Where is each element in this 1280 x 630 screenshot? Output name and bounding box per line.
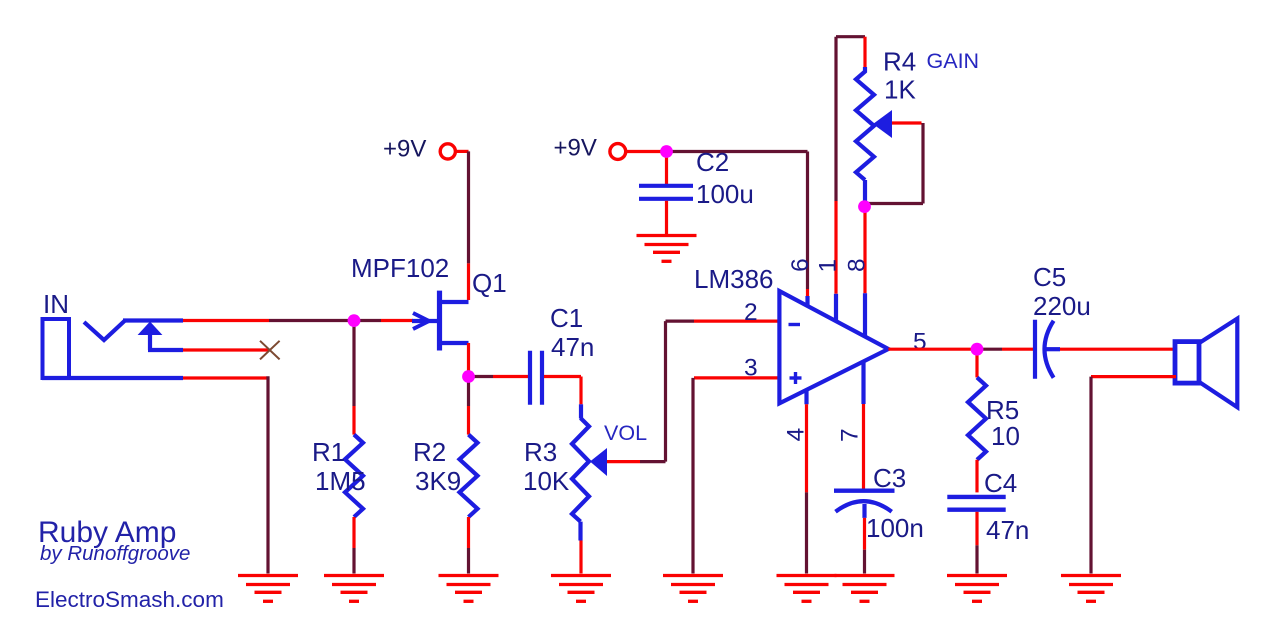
svg-text:10: 10 [991,421,1020,451]
op-amp inverting input mark [789,323,801,326]
svg-text:100n: 100n [866,513,924,543]
wire [381,319,413,322]
wire [578,522,582,541]
transistor Q1 drain lead [437,300,469,304]
wire [666,320,695,323]
ground [835,574,895,577]
wire [467,548,470,574]
svg-text:7: 7 [837,428,864,442]
wire [579,377,582,405]
wire [148,348,183,352]
potentiometer R4 [856,67,874,180]
wire [665,154,668,184]
svg-text:C4: C4 [984,468,1017,498]
node junction on V+ rail [660,145,673,158]
wire [456,150,469,153]
wire [352,548,355,574]
svg-text:10K: 10K [523,466,570,496]
wire [694,320,779,323]
wire [975,460,978,493]
wire [579,404,583,418]
wire [352,323,355,406]
ground [1061,574,1121,577]
wire [806,289,809,296]
wire [467,517,470,548]
pin 1 stub [834,294,838,322]
resistor R5 [968,377,986,459]
wire [544,375,581,378]
wire [640,460,666,463]
input jack sleeve lead [42,376,183,380]
pin 8 stub [863,293,867,337]
wire [266,376,269,573]
speaker LS1 [1175,342,1199,384]
ground [238,574,298,577]
node junction at source [462,370,475,383]
pin 6 stub [805,296,809,306]
svg-text:C3: C3 [873,463,906,493]
svg-text:3: 3 [744,355,758,382]
wire [921,123,924,204]
wire [1046,347,1060,351]
potentiometer R4 wiper [873,110,892,138]
node junction at output [971,343,984,356]
wire [834,201,837,294]
pin 4 stub [804,390,808,404]
svg-text:VOL: VOL [604,421,647,445]
wire [834,37,837,201]
wire [269,319,354,322]
input jack tip arrow [138,322,163,336]
ground [324,574,384,577]
wire [123,318,183,322]
svg-text:by Runoffgroove: by Runoffgroove [40,542,190,565]
svg-text:100u: 100u [696,179,754,209]
wire [867,202,923,205]
node junction R4 bottom [858,200,871,213]
wire [862,404,865,489]
wire [975,352,978,377]
wire [467,263,470,300]
ground [663,574,723,577]
input jack J1 body [43,319,70,378]
wire [1091,375,1176,378]
svg-text:1M5: 1M5 [315,466,366,496]
capacitor C3 [834,489,895,493]
wire [892,121,922,124]
op-amp U1 LM386 [779,291,888,403]
wire [467,379,470,406]
svg-text:MPF102: MPF102 [351,253,449,283]
potentiometer R3 wiper [590,448,607,476]
transistor Q1 source lead [437,341,469,345]
no-connect X mark [260,341,280,360]
wire [354,319,381,322]
capacitor C1 [528,351,532,405]
svg-text:2: 2 [744,299,758,326]
wire [467,406,470,435]
wire [493,375,528,378]
resistor R1 [345,435,363,517]
wire [183,348,270,351]
svg-text:R2: R2 [413,437,446,467]
pin 7 stub [861,361,865,404]
svg-text:IN: IN [43,289,69,319]
wire [183,319,269,322]
wire [467,343,470,371]
wire [1002,348,1033,351]
wire [863,37,866,67]
wire [975,512,978,546]
wire [863,211,866,293]
wire [627,150,662,153]
svg-text:1: 1 [815,259,842,273]
wire [467,151,470,263]
wire [607,460,640,463]
wire [471,375,493,378]
svg-text:5: 5 [913,329,927,356]
wire [352,406,355,435]
svg-text:+9V: +9V [383,136,426,163]
svg-text:R3: R3 [524,437,557,467]
svg-text:1K: 1K [884,75,916,105]
input jack tip spring contact [84,321,125,341]
ground [777,574,837,577]
svg-text:R4: R4 [883,47,916,77]
wire [183,376,267,379]
wire [1089,377,1092,574]
svg-text:47n: 47n [551,332,594,362]
svg-text:+9V: +9V [554,135,597,162]
svg-text:R1: R1 [312,437,345,467]
svg-text:C1: C1 [550,303,583,333]
wire [1060,348,1176,351]
wire [863,518,866,550]
wire [694,376,779,379]
ground [947,574,1007,577]
ground [439,574,499,577]
svg-text:8: 8 [844,258,871,272]
svg-text:220u: 220u [1033,291,1091,321]
wire [863,180,867,202]
wire [665,201,668,235]
ground [637,234,697,237]
ground [551,574,611,577]
node junction at gate net [348,314,361,327]
resistor R2 [460,435,478,517]
capacitor C5 [1033,320,1037,379]
wire [805,492,808,573]
svg-text:GAIN: GAIN [927,49,980,73]
transistor Q1 channel bar [437,291,442,351]
transistor Q1 gate arrow [412,319,438,323]
wire [863,550,866,574]
wire [888,348,971,351]
svg-text:C2: C2 [696,147,729,177]
wire [982,348,1002,351]
svg-text:6: 6 [787,258,814,272]
svg-text:LM386: LM386 [694,264,774,294]
wire [805,404,808,492]
wire [579,541,582,574]
wire [836,35,865,38]
wire [352,517,355,548]
wire [691,378,694,574]
op-amp non-inverting input mark [790,376,802,379]
potentiometer R3 [572,418,589,522]
svg-text:ElectroSmash.com: ElectroSmash.com [35,587,224,612]
svg-text:C5: C5 [1033,262,1066,292]
wire [806,152,809,290]
wire [975,545,978,573]
wire [667,150,808,153]
svg-text:47n: 47n [986,515,1029,545]
svg-text:Q1: Q1 [472,268,507,298]
wire [664,321,667,462]
capacitor C2 [639,184,693,188]
svg-text:3K9: 3K9 [415,466,461,496]
capacitor C4 [947,495,1005,499]
